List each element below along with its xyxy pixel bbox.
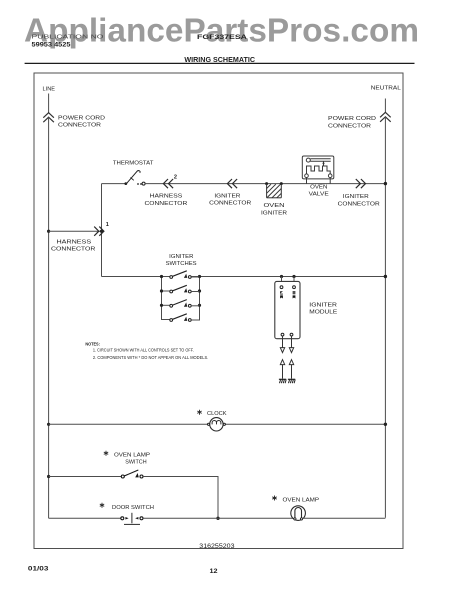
igniter connector (right): [356, 179, 366, 188]
wire: clock branch left: [49, 423, 208, 425]
oven igniter label: [261, 203, 287, 216]
clock: [208, 418, 226, 431]
svg-text:01/03: 01/03: [28, 566, 49, 572]
power cord connector (neutral) label: [328, 116, 376, 129]
svg-text:HARNESS: HARNESS: [57, 239, 92, 245]
publication number label: [32, 35, 104, 49]
wire: clock branch right: [225, 423, 385, 425]
svg-text:OVEN LAMP: OVEN LAMP: [283, 498, 320, 504]
svg-text:MODULE: MODULE: [309, 309, 337, 315]
svg-text:IGNITER: IGNITER: [309, 303, 337, 309]
thermostat: [124, 171, 145, 186]
node junction igniter row / neutral: [384, 275, 387, 278]
oven lamp switch label: [104, 451, 150, 466]
wire: door switch branch left: [49, 517, 121, 519]
svg-text:CLOCK: CLOCK: [207, 411, 227, 417]
svg-text:SWITCH: SWITCH: [125, 459, 146, 465]
oven valve U1: [302, 156, 334, 184]
power cord connector (line side): [43, 113, 54, 123]
ground R: [288, 379, 295, 383]
node module pin L: [280, 275, 283, 278]
node junction line rail / lamp switch branch: [47, 475, 50, 478]
node junction lamp switch / door switch wire: [216, 517, 219, 520]
wire: igniter switches row left segment: [102, 276, 170, 278]
wire: module top leads: [281, 277, 283, 286]
switch bank left rail: [161, 277, 163, 320]
igniter connector (left) label: [209, 194, 251, 207]
svg-text:NEUTRAL: NEUTRAL: [371, 86, 402, 92]
notes: [85, 341, 208, 360]
svg-text:FGF337ESA: FGF337ESA: [197, 35, 248, 41]
svg-text:CONNECTOR: CONNECTOR: [51, 247, 95, 253]
svg-text:CONNECTOR: CONNECTOR: [209, 201, 251, 207]
svg-text:2. COMPONENTS WITH * DO NOT: 2. COMPONENTS WITH * DO NOT APPEAR ON AL…: [93, 355, 208, 360]
svg-text:IGNITER: IGNITER: [261, 210, 287, 216]
svg-text:IGNITER: IGNITER: [169, 254, 193, 260]
wire: lamp switch to corner: [143, 477, 218, 519]
svg-text:HARNESS: HARNESS: [150, 193, 183, 199]
wire: module bottom lead L with connector arrow: [280, 336, 284, 353]
oven valve label: [309, 184, 329, 197]
wire: module bottom lead R with connector arrow: [289, 336, 293, 353]
power cord connector (neutral side): [380, 112, 391, 122]
oven lamp label: [272, 496, 319, 504]
node junction main row / neutral: [384, 182, 387, 185]
wire: ground lead L with connector arrow: [280, 360, 284, 379]
wire: igniter switches row right segment: [191, 276, 385, 278]
pin label: [293, 291, 296, 298]
wire: NEUTRAL rail upper segment: [384, 99, 386, 113]
wire: vertical main row to igniter row: [101, 184, 103, 277]
svg-text:1: 1: [106, 222, 109, 228]
igniter connector (left): [227, 179, 237, 188]
svg-text:1. CIRCUIT SHOWN WITH ALL CON: 1. CIRCUIT SHOWN WITH ALL CONTROLS SET T…: [93, 348, 194, 353]
svg-text:POWER CORD: POWER CORD: [58, 116, 105, 122]
svg-text:2: 2: [174, 175, 177, 181]
svg-text:POWER CORD: POWER CORD: [328, 116, 376, 122]
wire: oven lamp to neutral corner: [303, 517, 386, 519]
harness connector 2 label: [145, 193, 188, 207]
wire: LINE rail main segment: [48, 117, 50, 518]
oven lamp switch: [121, 470, 143, 478]
svg-text:VALVE: VALVE: [309, 191, 329, 197]
node junction harness branch / vertical: [100, 230, 103, 233]
node junction clock branch / neutral: [384, 423, 387, 426]
svg-text:SWITCHES: SWITCHES: [166, 261, 197, 267]
igniter module U2: [275, 275, 300, 339]
svg-text:316255203: 316255203: [199, 544, 235, 550]
wire: ground lead R with connector arrow: [289, 360, 293, 379]
svg-text:CONNECTOR: CONNECTOR: [58, 123, 101, 129]
wire: door switch to oven lamp: [143, 517, 294, 519]
ground L: [279, 379, 286, 383]
svg-text:OVEN: OVEN: [264, 203, 285, 209]
svg-text:CONNECTOR: CONNECTOR: [338, 201, 380, 207]
svg-text:CONNECTOR: CONNECTOR: [328, 123, 371, 129]
svg-text:WIRING SCHEMATIC: WIRING SCHEMATIC: [184, 55, 255, 64]
igniter switches label: [166, 254, 197, 267]
svg-text:12: 12: [210, 568, 219, 575]
wire: lamp switch branch: [49, 476, 122, 478]
svg-text:59953 4525: 59953 4525: [32, 42, 72, 49]
power cord connector (line) label: [58, 116, 105, 129]
svg-text:CONNECTOR: CONNECTOR: [145, 201, 188, 207]
pin label: [280, 291, 283, 298]
svg-text:AppliancePartsPros.com: AppliancePartsPros.com: [24, 11, 419, 48]
svg-text:THERMOSTAT: THERMOSTAT: [113, 160, 154, 166]
wire: main row segment thermostat to neutral: [145, 183, 385, 185]
wire: LINE rail upper segment: [48, 94, 50, 113]
igniter connector (right) label: [338, 194, 380, 207]
igniter switch 2: [160, 285, 201, 293]
harness connector 2: [163, 175, 177, 189]
clock label: [197, 410, 226, 417]
svg-text:LINE: LINE: [43, 87, 56, 93]
wire: harness branch: [49, 230, 102, 232]
svg-text:IGNITER: IGNITER: [343, 194, 369, 200]
wire: main row left segment: [102, 183, 126, 185]
switch bank right rail: [199, 277, 201, 320]
node junction line rail / harness branch: [47, 230, 50, 233]
module box: [275, 281, 300, 338]
svg-text:IGNITER: IGNITER: [214, 194, 240, 200]
door switch label: [100, 503, 154, 511]
schematic frame border: [34, 73, 403, 549]
svg-text:OVEN: OVEN: [310, 184, 327, 190]
oven lamp DS1: [291, 506, 306, 521]
igniter switch 1: [160, 271, 201, 279]
igniter module label: [309, 303, 337, 316]
wire: NEUTRAL rail main segment: [384, 117, 386, 518]
harness connector 1 label: [51, 239, 95, 252]
svg-text:OVEN LAMP: OVEN LAMP: [114, 452, 150, 458]
harness connector 1: [94, 222, 109, 236]
igniter switch 3: [160, 300, 201, 308]
node module pin R: [292, 275, 295, 278]
svg-text:DOOR SWITCH: DOOR SWITCH: [112, 505, 154, 511]
igniter switch 4: [161, 314, 200, 322]
svg-text:NOTES:: NOTES:: [85, 341, 100, 346]
horizontal rule under title: [25, 62, 415, 64]
node junction line rail / clock branch: [47, 423, 50, 426]
igniter switches bank: [160, 271, 201, 322]
svg-text:PUBLICATION NO: PUBLICATION NO: [32, 35, 104, 41]
oven igniter: [265, 182, 283, 198]
door switch: [121, 513, 143, 525]
